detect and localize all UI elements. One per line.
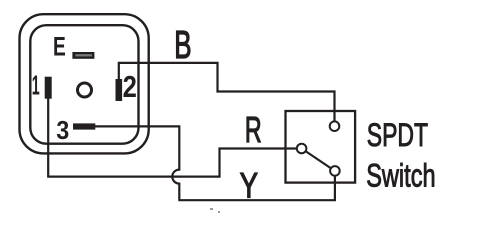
pin 2 terminal: [116, 79, 123, 101]
pin 3 terminal: [73, 123, 95, 129]
pin E terminal: [72, 52, 94, 59]
connector J1 inner body: [30, 25, 138, 144]
svg-text:1: 1: [32, 69, 40, 100]
switch terminal top: [330, 121, 340, 131]
svg-text:B: B: [174, 23, 191, 66]
connector keyway circle: [78, 83, 92, 97]
svg-text:R: R: [245, 111, 262, 150]
pin 1 terminal: [45, 77, 52, 99]
switch common terminal: [297, 144, 307, 154]
SPDT switch S1 box: [286, 111, 356, 183]
wire R : pin 1 to switch common terminal: [48, 97, 296, 177]
svg-text:Switch: Switch: [366, 158, 435, 195]
connector J1 outer body: [20, 14, 149, 153]
label SPDT Switch: [366, 117, 435, 194]
switch terminal bottom: [330, 166, 340, 176]
svg-text:E: E: [53, 31, 66, 61]
svg-text:SPDT: SPDT: [367, 117, 428, 153]
wire B : pin 2 to switch top terminal: [119, 63, 335, 121]
speck artifacts: [210, 208, 220, 213]
svg-text:Y: Y: [240, 166, 258, 205]
switch lever: [306, 151, 331, 168]
wire Y : pin 3 to switch bottom terminal, hops over wire R: [94, 126, 335, 200]
svg-text:2: 2: [123, 70, 137, 104]
svg-text:3: 3: [56, 117, 69, 145]
